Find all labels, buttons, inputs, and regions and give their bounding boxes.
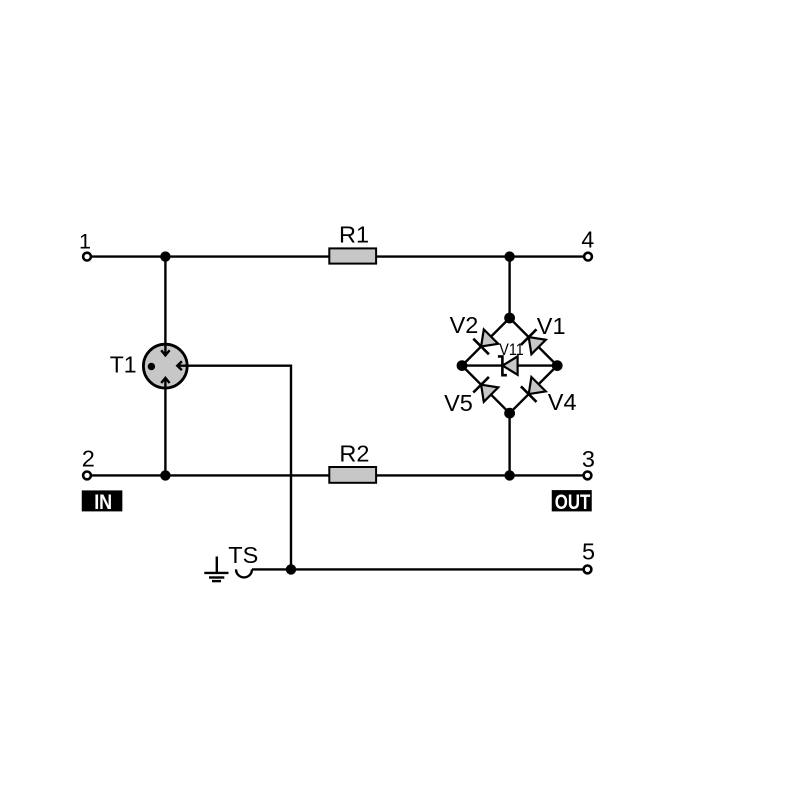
bridge diamond wires: [462, 318, 557, 413]
junction middle T1: [160, 470, 170, 480]
svg-text:R1: R1: [339, 222, 369, 248]
svg-text:R2: R2: [339, 441, 369, 467]
wire bridge bottom branch: [508, 413, 510, 475]
surge arrester T1: [143, 342, 190, 392]
wire bridge top branch: [508, 257, 510, 318]
svg-text:V5: V5: [444, 390, 473, 416]
OUT box: [552, 490, 592, 514]
svg-text:1: 1: [79, 230, 91, 254]
resistor R1: [329, 248, 376, 263]
svg-text:2: 2: [82, 446, 95, 472]
node bridge right: [552, 360, 563, 371]
wire bottom rail (TS hook to terminal 5): [252, 568, 583, 570]
terminal 5: [584, 566, 592, 574]
svg-text:5: 5: [582, 539, 595, 565]
wire top rail (terminal 1 to terminal 4): [92, 255, 583, 257]
IN box: [82, 490, 123, 514]
node bridge top: [504, 313, 515, 324]
junction top T1: [160, 251, 170, 261]
svg-text:TS: TS: [228, 542, 258, 568]
terminal 2: [83, 472, 91, 480]
svg-text:3: 3: [582, 446, 595, 472]
terminal 3: [584, 472, 592, 480]
junction top bridge: [504, 251, 514, 261]
diode V5: [473, 377, 498, 402]
junction bottom rail: [286, 564, 296, 574]
TS disconnect hook: [236, 569, 252, 577]
wire T1 right branch going down to bottom rail: [190, 366, 291, 570]
svg-text:IN: IN: [94, 490, 112, 514]
junction middle bridge: [504, 470, 514, 480]
node bridge bottom: [504, 408, 515, 419]
wire T1 top branch: [164, 257, 166, 342]
svg-text:V2: V2: [450, 312, 479, 338]
zener diode V11: [498, 356, 518, 375]
resistor R2: [329, 467, 376, 483]
wire middle rail (terminal 2 to terminal 3): [92, 474, 583, 476]
svg-text:4: 4: [581, 227, 594, 253]
diode V1: [521, 329, 546, 354]
diode V4: [521, 377, 546, 402]
svg-text:V1: V1: [537, 313, 566, 339]
svg-text:V11: V11: [499, 340, 524, 359]
node bridge left: [457, 360, 468, 371]
svg-text:OUT: OUT: [555, 491, 591, 514]
terminal 4: [584, 253, 592, 261]
wire T1 bottom branch: [164, 392, 166, 475]
terminal 1: [83, 253, 91, 261]
diode V2: [473, 329, 498, 354]
svg-text:T1: T1: [110, 351, 137, 377]
svg-text:V4: V4: [548, 389, 577, 415]
ground symbol: [204, 557, 228, 582]
